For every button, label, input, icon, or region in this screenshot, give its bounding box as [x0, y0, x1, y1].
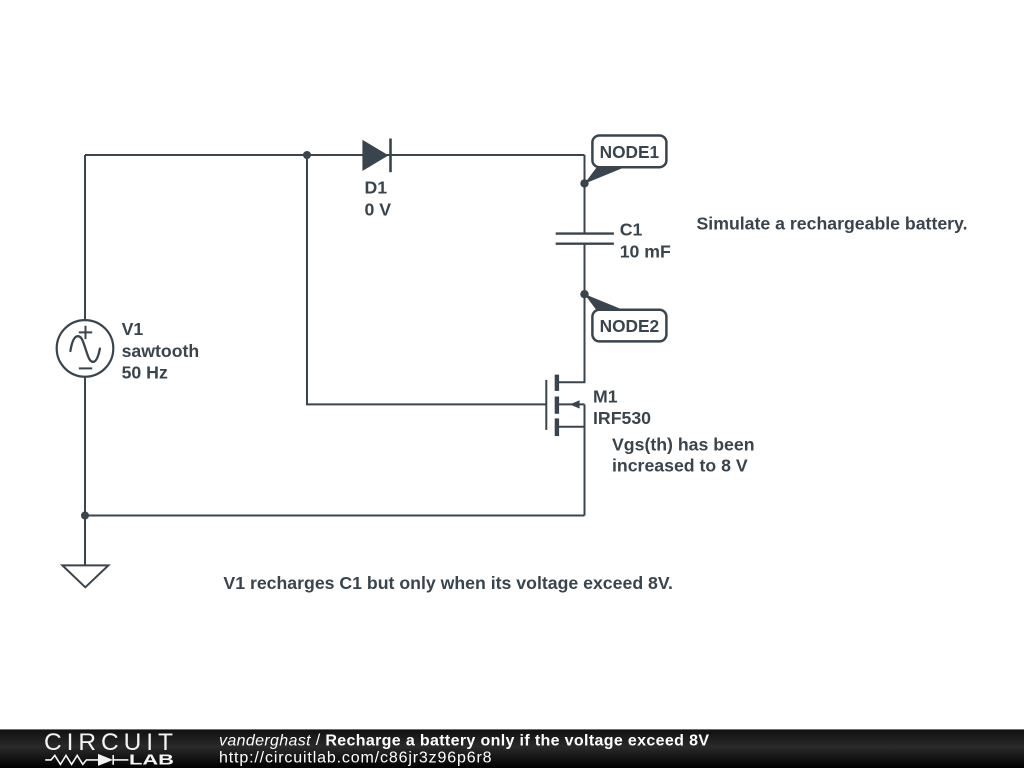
svg-text:sawtooth: sawtooth	[122, 341, 200, 361]
svg-text:V1: V1	[122, 319, 144, 339]
svg-text:50 Hz: 50 Hz	[122, 362, 168, 382]
svg-text:IRF530: IRF530	[593, 408, 651, 428]
svg-text:NODE1: NODE1	[600, 142, 660, 162]
svg-text:10 mF: 10 mF	[620, 242, 671, 262]
svg-text:Vgs(th) has been: Vgs(th) has been	[612, 435, 755, 455]
svg-text:http://circuitlab.com/c86jr3z9: http://circuitlab.com/c86jr3z96p6r8	[219, 750, 492, 767]
svg-text:C1: C1	[620, 220, 643, 240]
svg-text:vanderghast / Recharge a batte: vanderghast / Recharge a battery only if…	[219, 732, 709, 749]
svg-text:NODE2: NODE2	[600, 316, 660, 336]
svg-text:increased to 8 V: increased to 8 V	[612, 456, 748, 476]
svg-text:V1 recharges C1 but only when: V1 recharges C1 but only when its voltag…	[223, 573, 673, 593]
svg-text:Simulate a rechargeable batter: Simulate a rechargeable battery.	[697, 214, 968, 234]
svg-text:D1: D1	[365, 177, 388, 197]
svg-text:0 V: 0 V	[365, 199, 392, 219]
svg-text:M1: M1	[593, 387, 618, 407]
svg-text:LAB: LAB	[129, 752, 174, 768]
